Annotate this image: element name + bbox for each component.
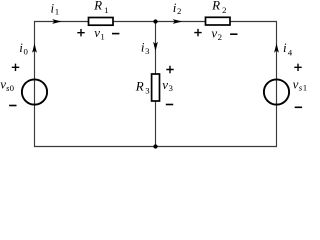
svg-text:1: 1 xyxy=(100,32,104,42)
svg-text:v: v xyxy=(293,76,299,91)
svg-text:R: R xyxy=(93,0,102,13)
svg-text:3: 3 xyxy=(145,46,150,56)
svg-text:0: 0 xyxy=(24,47,29,57)
svg-text:1: 1 xyxy=(303,83,307,93)
svg-text:2: 2 xyxy=(218,32,222,42)
svg-text:2: 2 xyxy=(222,5,226,15)
svg-text:2: 2 xyxy=(177,6,181,16)
svg-text:4: 4 xyxy=(288,47,293,57)
svg-text:3: 3 xyxy=(169,83,174,93)
svg-text:1: 1 xyxy=(55,7,59,17)
svg-text:v: v xyxy=(94,25,100,40)
svg-text:R: R xyxy=(135,79,144,94)
svg-text:v: v xyxy=(211,26,217,41)
svg-text:3: 3 xyxy=(145,85,150,95)
svg-text:1: 1 xyxy=(104,5,108,15)
svg-text:0: 0 xyxy=(10,83,15,93)
svg-text:R: R xyxy=(211,0,220,13)
svg-text:v: v xyxy=(162,77,168,92)
svg-text:i: i xyxy=(283,40,287,55)
